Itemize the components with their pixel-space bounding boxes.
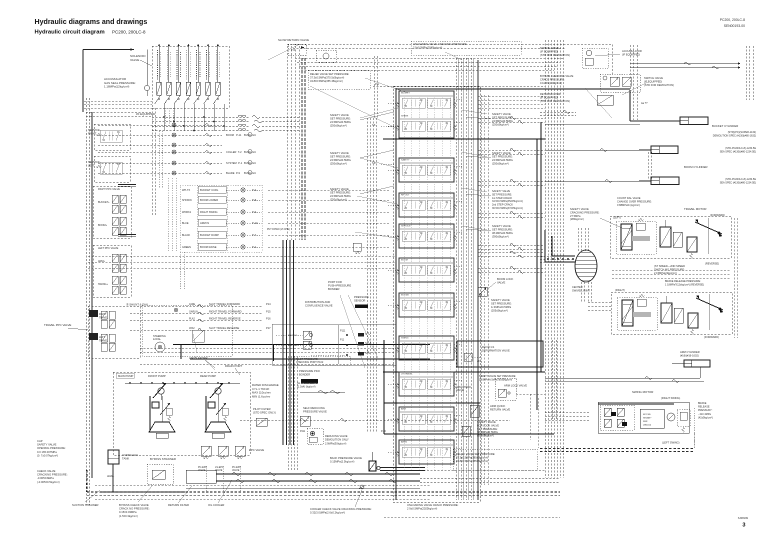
svg-text:2 15MPa(22kg/cm²): 2 15MPa(22kg/cm²): [654, 271, 677, 275]
svg-text:BUCKET+: BUCKET+: [98, 201, 110, 204]
svg-text:SERVICE: SERVICE: [401, 226, 411, 228]
svg-text:BLACK: BLACK: [182, 234, 191, 237]
back pressure valve sym: [369, 461, 376, 471]
valve section BUCKET: [400, 95, 453, 97]
svg-text:SEA SPEC (#130&#80-1234.5E): SEA SPEC (#130&#80-1234.5E): [720, 181, 756, 184]
solenoid valve 6: [207, 44, 209, 82]
svg-text:RIGHT PPC VALVE: RIGHT PPC VALVE: [98, 188, 120, 191]
return manifold lines: [140, 347, 395, 349]
svg-text:(IF EQUIPPED): (IF EQUIPPED): [540, 49, 558, 53]
svg-text:LEVEL: LEVEL: [107, 476, 115, 478]
thick manifold L: [173, 344, 430, 346]
svg-text:BOOM LOCK: BOOM LOCK: [497, 277, 513, 281]
label pointer lines: [365, 78, 408, 93]
svg-text:NL VALVE 010Pa: NL VALVE 010Pa: [297, 381, 318, 385]
svg-text:0.15±0.03MPa: 0.15±0.03MPa: [119, 510, 137, 514]
svg-text:T=1: T=1: [291, 48, 296, 52]
solenoid valve 4: [187, 44, 189, 82]
svg-text:PRESSURE VALVE: PRESSURE VALVE: [303, 410, 327, 414]
top left feed line: [83, 49, 134, 51]
left ppc valve: [93, 245, 131, 297]
svg-text:SAFETY VALVE: SAFETY VALVE: [492, 151, 511, 155]
svg-text:ARM2: ARM2: [401, 441, 408, 444]
bus crossing pigtails: [238, 115, 246, 117]
svg-text:CHECKING PORT P102: CHECKING PORT P102: [296, 361, 324, 364]
svg-text:BOOM+: BOOM+: [98, 224, 108, 227]
svg-text:SEN00193-00: SEN00193-00: [724, 24, 745, 28]
left edge vertical bus: [85, 98, 87, 505]
svg-text:SUCTION STRAINER: SUCTION STRAINER: [72, 503, 98, 507]
svg-text:(250±5kg/cm²): (250±5kg/cm²): [492, 123, 509, 127]
pilot pressure checking port: [294, 356, 350, 365]
oil cooler pipes: [186, 470, 216, 483]
svg-text:1 18MPa?(12±kg/cm²) (REVERSE): 1 18MPa?(12±kg/cm²) (REVERSE): [665, 283, 704, 286]
svg-text:SAFETY VALVE: SAFETY VALVE: [492, 224, 511, 228]
svg-text:SWITCH MG PRESSURE:: SWITCH MG PRESSURE:: [654, 267, 685, 271]
svg-text:SHOWN: SHOWN: [182, 199, 192, 202]
thick feed verticals: [536, 139, 538, 410]
reducing valve box: [307, 428, 323, 444]
travel signal rows: [130, 305, 263, 307]
boom quick return mini box: [353, 243, 361, 251]
boom cylinder lower: [651, 177, 679, 185]
bucket cylinder: [680, 117, 708, 125]
right trunk bus: [544, 40, 546, 478]
swivel out lines: [580, 282, 582, 302]
svg-text:SAFETY VALVE: SAFETY VALVE: [491, 298, 510, 302]
pilot bus under solenoid valves: [152, 116, 250, 118]
bottom horizontal bundle: [420, 477, 560, 479]
svg-text:24.5MPa±0.5MPa: 24.5MPa±0.5MPa: [330, 158, 351, 162]
svg-text:CRACKING PRESSURE:: CRACKING PRESSURE:: [570, 210, 600, 214]
svg-text:2 9±0.5MPa(2025kg/cm²): 2 9±0.5MPa(2025kg/cm²): [407, 507, 437, 511]
valve section bucket+spare box: [399, 91, 454, 138]
svg-text:(38kw/d): (38kw/d): [643, 425, 651, 427]
svg-text:PUSH-PRESSURE: PUSH-PRESSURE: [328, 284, 351, 288]
svg-text:SET PRESSURE:: SET PRESSURE:: [492, 155, 513, 159]
svg-text:(RIGHT SWING): (RIGHT SWING): [661, 396, 680, 400]
svg-text:(STD FOR DEMOLITION): (STD FOR DEMOLITION): [540, 53, 570, 57]
svg-text:RETURN VALVE: RETURN VALVE: [490, 408, 510, 412]
svg-text:SLCT TRAVEL FORWARD: SLCT TRAVEL FORWARD: [209, 302, 240, 306]
svg-text:BUCKET: BUCKET: [401, 93, 411, 95]
valve top bus to trunk: [478, 95, 545, 97]
long top right lines: [630, 63, 738, 65]
left of valve bundle: [366, 118, 368, 432]
svg-text:SET PRESSURE:: SET PRESSURE:: [492, 228, 513, 232]
svg-text:SENSOR: SENSOR: [354, 299, 365, 303]
svg-text:RIGHT: RIGHT: [88, 132, 97, 136]
valve section RH OUT: [399, 193, 454, 217]
shuttle box: [142, 305, 232, 356]
svg-text:0.0 165.007MPa: 0.0 165.007MPa: [37, 450, 57, 454]
svg-text:27 5MPa: 27 5MPa: [570, 214, 581, 218]
svg-text:WH-TX: WH-TX: [182, 189, 191, 192]
valve right bus: [455, 58, 457, 500]
main pressure line mid: [383, 138, 545, 140]
svg-text:VALVE: VALVE: [456, 389, 464, 392]
valve section BOOM2: [399, 293, 454, 317]
svg-text:(IF EQUIPPED): (IF EQUIPPED): [540, 95, 558, 99]
left travel motor: [610, 216, 731, 258]
main control valve frame: [393, 86, 480, 502]
svg-text:DEMOLITION ONLY: DEMOLITION ONLY: [325, 438, 349, 442]
svg-text:BONDER: BONDER: [299, 372, 310, 376]
svg-text:TANK: TANK: [122, 457, 129, 461]
svg-text:RETURN FILTER: RETURN FILTER: [540, 92, 560, 96]
svg-text:CRACK PRESSURE:: CRACK PRESSURE:: [540, 77, 565, 81]
svg-text:TRAVEL PPC VALVE: TRAVEL PPC VALVE: [44, 323, 71, 327]
return filter right sym: [597, 95, 613, 105]
check valve minis: [358, 333, 364, 337]
valve section ARM2: [399, 440, 454, 464]
svg-text:BLADE P-9: BLADE P-9: [226, 171, 241, 175]
svg-text:SWING+: SWING+: [98, 283, 108, 286]
front pump swash servo: [149, 422, 175, 432]
svg-text:SAFETY VALVE: SAFETY VALVE: [330, 187, 349, 191]
solenoid valve 1: [158, 44, 160, 82]
hydraulic tank: [108, 450, 119, 464]
dark bottom line: [87, 491, 560, 493]
svg-text:(42±5kg/cm²): (42±5kg/cm²): [698, 416, 713, 419]
right travel motor: [611, 292, 732, 334]
svg-text:SWITCH VALVE: SWITCH VALVE: [540, 46, 559, 50]
svg-text:(280kg/cm²): (280kg/cm²): [570, 217, 584, 221]
svg-text:ARM IN: ARM IN: [200, 221, 209, 225]
svg-text:(390±5kg/cm²): (390±5kg/cm²): [477, 434, 494, 438]
svg-text:34.8±0.5MPa(355 45kg/cm²): 34.8±0.5MPa(355 45kg/cm²): [310, 79, 343, 83]
accumulator top right: [586, 50, 592, 56]
svg-text:1/.4MPa±0.5MPa: 1/.4MPa±0.5MPa: [491, 305, 512, 309]
valve section SWING: [399, 336, 454, 360]
svg-text:3: 3: [742, 523, 745, 529]
svg-text:BOOM: BOOM: [401, 260, 408, 262]
travel motor link bus: [612, 269, 731, 271]
svg-text:- 410 4MPa: - 410 4MPa: [698, 413, 712, 416]
svg-text:1.18MPa(12kg/cm²): 1.18MPa(12kg/cm²): [104, 85, 129, 89]
svg-text:BOOM RAISE: BOOM RAISE: [200, 245, 217, 249]
svg-text:24.5MPa±0.5MPa: 24.5MPa±0.5MPa: [492, 119, 513, 123]
svg-text:(IF EQUIPPED): (IF EQUIPPED): [644, 79, 662, 83]
svg-text:VALVE: VALVE: [198, 469, 206, 472]
accumulator gas seal: [144, 85, 149, 90]
svg-text:3MR: 3MR: [643, 421, 648, 423]
boom cylinder upper: [651, 146, 678, 154]
svg-text:24.5MPa±0.5MPa: 24.5MPa±0.5MPa: [492, 158, 513, 162]
cyl feed bundle: [629, 45, 631, 120]
swing feed lines: [545, 411, 590, 413]
svg-text:SAFETY: SAFETY: [401, 159, 410, 162]
svg-text:PRESSURY:: PRESSURY:: [698, 409, 713, 412]
svg-text:RIGHT TRAVEL REVERSE: RIGHT TRAVEL REVERSE: [209, 317, 241, 321]
svg-text:LEFT: LEFT: [88, 164, 95, 168]
svg-text:LEFT PPC VALVE: LEFT PPC VALVE: [98, 247, 119, 250]
LS EPC valves: [201, 446, 211, 456]
svg-text:LH TRAVEL: LH TRAVEL: [401, 373, 413, 376]
center long pilot lines: [88, 255, 396, 257]
svg-text:SET PRESSURE:: SET PRESSURE:: [330, 117, 351, 121]
svg-text:36.5±0.5MPa(372±5kg/cm²): 36.5±0.5MPa(372±5kg/cm²): [492, 207, 523, 210]
svg-text:BOOM LOWER: BOOM LOWER: [200, 198, 218, 202]
switch valve top dashed box: [582, 48, 608, 68]
svg-text:SWING MOTOR: SWING MOTOR: [632, 390, 653, 394]
travel ppc valve box: [88, 306, 140, 358]
svg-text:CHANGE OVER PRESSURE:: CHANGE OVER PRESSURE:: [617, 199, 652, 203]
svg-text:(250±5kg/cm²): (250±5kg/cm²): [330, 198, 347, 202]
trunk corner dashes: [516, 393, 545, 395]
svg-text:AFL.: AFL.: [477, 360, 482, 363]
svg-text:0.32(3.0)MPa(2.6±0.2kg/cm²): 0.32(3.0)MPa(2.6±0.2kg/cm²): [310, 511, 345, 515]
svg-text:VALVE: VALVE: [130, 58, 139, 62]
top pilot bus: [287, 44, 612, 46]
valve section LH TRAVEL: [399, 372, 454, 396]
svg-text:P11: P11: [340, 339, 345, 342]
svg-text:0 88MPa% (kg/cm²): 0 88MPa% (kg/cm²): [617, 203, 640, 207]
svg-text:PORT FOR: PORT FOR: [328, 280, 342, 284]
svg-text:SEDAN?: SEDAN?: [643, 417, 652, 420]
svg-text:CRACKING PRESSURE:: CRACKING PRESSURE:: [37, 473, 68, 477]
svg-text:SAFETY VALVE: SAFETY VALVE: [330, 113, 349, 117]
solenoid valve 7: [217, 44, 219, 82]
svg-text:P14: P14: [266, 302, 271, 306]
svg-text:BUCKET DUMP: BUCKET DUMP: [200, 233, 219, 237]
svg-text:(FORWARD): (FORWARD): [710, 213, 725, 217]
svg-text:(1.0±4) (kg/cm²): (1.0±4) (kg/cm²): [297, 384, 316, 388]
svg-text:VALVE: VALVE: [497, 281, 505, 285]
svg-text:SERVICE: SERVICE: [88, 128, 100, 132]
svg-text:VALVE: VALVE: [232, 469, 240, 472]
suction line: [112, 464, 114, 492]
svg-text:BOOM CYLINDER: BOOM CYLINDER: [684, 165, 707, 169]
svg-text:COOLER CHECK VALVE CRACKING PR: COOLER CHECK VALVE CRACKING PRESSURE:: [310, 507, 372, 511]
svg-text:PRESSURE PICK: PRESSURE PICK: [299, 369, 320, 373]
svg-text:MAIN PUMP: MAIN PUMP: [118, 374, 133, 378]
svg-text:OPENING PRESSURE:: OPENING PRESSURE:: [37, 446, 66, 450]
svg-text:SAFETY VALVE: SAFETY VALVE: [330, 151, 349, 155]
svg-text:SAFETY VALVE: SAFETY VALVE: [477, 420, 496, 424]
right ppc valve: [93, 186, 131, 238]
svg-text:CRACK NO PRESSURE:: CRACK NO PRESSURE:: [119, 507, 150, 511]
front pump: [158, 388, 164, 394]
svg-text:ARM QUICK: ARM QUICK: [490, 404, 505, 408]
solenoid outlet drops: [163, 104, 165, 131]
svg-text:SAFETY VALVE: SAFETY VALVE: [37, 443, 57, 447]
right ppc underline: [118, 184, 136, 186]
svg-text:SAFETY VALVE: SAFETY VALVE: [570, 207, 589, 211]
svg-text:SET PRESSURE:: SET PRESSURE:: [477, 427, 498, 431]
service valve upper box: [94, 124, 130, 150]
svg-text:2.9±0.5MPa(2045kg/cm²): 2.9±0.5MPa(2045kg/cm²): [413, 45, 442, 49]
unloading valve top box: [411, 41, 521, 55]
svg-text:24.5MPa±0.5MPa: 24.5MPa±0.5MPa: [330, 194, 351, 198]
svg-text:PRESSURE: PRESSURE: [354, 295, 369, 299]
rear pump swash servo: [205, 422, 231, 432]
main pump block frame: [113, 372, 250, 455]
svg-text:SERVICE: SERVICE: [88, 160, 100, 164]
svg-text:DRAIN PORT: DRAIN PORT: [225, 364, 242, 368]
svg-text:P411: P411: [300, 431, 306, 433]
svg-text:(-0.005±0.5kg/cm²): (-0.005±0.5kg/cm²): [37, 480, 60, 484]
svg-text:PILOT FILTER: PILOT FILTER: [253, 407, 271, 411]
svg-text:MOT.ML: MOT.ML: [643, 414, 652, 416]
svg-text:SET PRESSURE:: SET PRESSURE:: [491, 302, 512, 306]
rear pump: [215, 388, 221, 394]
svg-text:RH OUT: RH OUT: [401, 195, 410, 197]
svg-text:BLUE: BLUE: [182, 222, 189, 225]
relief valve bottom box: [453, 449, 537, 470]
svg-text:COLLER T-2: COLLER T-2: [226, 150, 242, 154]
svg-text:SET PRESSURE:: SET PRESSURE:: [330, 191, 351, 195]
mid dashed line w bumps: [240, 419, 510, 421]
svg-text:Hydraulic diagrams and drawing: Hydraulic diagrams and drawings: [35, 19, 148, 26]
svg-text:(205±5kg/cm²): (205±5kg/cm²): [491, 309, 508, 313]
solenoid valve group box: [152, 46, 229, 108]
bottom most dashed: [384, 516, 560, 518]
service valve lower box: [94, 156, 130, 182]
svg-text:(1.5±0.3kg/cm²): (1.5±0.3kg/cm²): [119, 514, 138, 518]
svg-text:(RIGHT): (RIGHT): [615, 288, 625, 292]
svg-text:(LEFT SWING): (LEFT SWING): [662, 441, 680, 445]
svg-text:I/F EQUIPPED: I/F EQUIPPED: [136, 112, 155, 116]
svg-text:REAR PUMP: REAR PUMP: [200, 374, 216, 378]
svg-text:P16: P16: [266, 317, 271, 321]
svg-text:(ST SPEED—2ND SPEED: (ST SPEED—2ND SPEED: [654, 264, 685, 268]
svg-text:BYPASS CHECKING VALVE: BYPASS CHECKING VALVE: [540, 74, 574, 78]
svg-text:(#16&#16-1602): (#16&#16-1602): [680, 353, 699, 357]
center tall bundle: [286, 46, 288, 240]
svg-text:ARM+: ARM+: [98, 260, 106, 263]
svg-text:P17: P17: [266, 326, 271, 330]
svg-text:Hydraulic circuit diagram: Hydraulic circuit diagram: [35, 29, 105, 35]
solenoid valve 3: [178, 44, 180, 82]
svg-text:UNLOADING VALVE CRACK PRESSURE: UNLOADING VALVE CRACK PRESSURE:: [407, 503, 459, 507]
svg-text:P111: P111: [340, 330, 346, 333]
svg-text:SAFETY VALVE: SAFETY VALVE: [492, 112, 511, 116]
nl wavy pipe: [318, 391, 328, 394]
svg-text:SELF REDUCING: SELF REDUCING: [303, 406, 325, 410]
second trunk: [577, 228, 579, 252]
svg-text:PLA2: PLA2: [189, 318, 196, 321]
svg-text:BYPASS CHECK VALVE: BYPASS CHECK VALVE: [119, 503, 149, 507]
ls deformation block: [457, 341, 543, 367]
switch valve mid box: [600, 74, 640, 92]
svg-text:CONFLUENCE VALVE: CONFLUENCE VALVE: [305, 304, 333, 308]
svg-text:(250±5kg/cm²): (250±5kg/cm²): [330, 124, 347, 128]
svg-text:SEA SPEC (#130&#80-1234.5E): SEA SPEC (#130&#80-1234.5E): [720, 150, 756, 153]
svg-text:-0.005±49kPa: -0.005±49kPa: [37, 476, 54, 480]
cooler check valve sym: [360, 485, 364, 489]
svg-text:RELEASE: RELEASE: [698, 406, 710, 409]
svg-text:SET PRESSURE:: SET PRESSURE:: [492, 116, 513, 120]
svg-text:Aa ??: Aa ??: [641, 102, 648, 105]
svg-text:37.3±0.5MPa(370.5±5kg/cm²): 37.3±0.5MPa(370.5±5kg/cm²): [310, 75, 344, 79]
svg-text:GREEN: GREEN: [182, 246, 191, 249]
confluence valve block: [272, 324, 396, 365]
svg-text:BACK PRESSURE VALVE: BACK PRESSURE VALVE: [330, 456, 362, 460]
swivel feed lines: [547, 258, 549, 260]
left bus top link: [86, 111, 152, 113]
svg-text:RELIEF VALVE SET PRESSURE:: RELIEF VALVE SET PRESSURE:: [310, 72, 349, 76]
svg-text:BRAKE: BRAKE: [698, 402, 707, 405]
svg-text:BOOM P-11: BOOM P-11: [226, 133, 242, 137]
svg-text:(0. 7±0.07kg/cm²): (0. 7±0.07kg/cm²): [37, 453, 58, 457]
cyl connect lines: [629, 90, 631, 121]
svg-text:AIR BLEEDER: AIR BLEEDER: [189, 356, 208, 360]
valve section SAFETY: [399, 158, 454, 182]
svg-text:BOOM2: BOOM2: [401, 295, 410, 297]
center vertical bundle: [287, 356, 289, 470]
svg-text:RIGHT TRAVEL FORWARD: RIGHT TRAVEL FORWARD: [209, 310, 242, 314]
svg-text:PC200, 200LC-8: PC200, 200LC-8: [112, 29, 146, 34]
valve section SERVICE: [399, 224, 454, 248]
svg-text:SJ08199: SJ08199: [738, 516, 749, 520]
relief valve set pressure box: [308, 70, 370, 89]
svg-text:BUCKET: BUCKET: [288, 335, 298, 337]
svg-text:ARM CYLINDER: ARM CYLINDER: [680, 350, 700, 354]
svg-text:RIGHT SWING: RIGHT SWING: [200, 210, 218, 214]
svg-text:WORK1: WORK1: [182, 211, 192, 214]
solenoid valve 2: [168, 44, 170, 82]
svg-text:SWITCH VALVE: SWITCH VALVE: [644, 76, 663, 80]
solenoid valve 5: [197, 44, 199, 82]
svg-text:SLCT TRAVEL REVERSE: SLCT TRAVEL REVERSE: [209, 326, 239, 330]
valve section SPARE: [400, 118, 453, 120]
svg-text:BL-CURL: BL-CURL: [288, 345, 298, 347]
main pressure line low: [383, 371, 545, 373]
right link bus: [540, 111, 576, 113]
pilot signal table: [180, 185, 262, 252]
svg-text:UNLOADING VALVE CRACKING PRESS: UNLOADING VALVE CRACKING PRESSURE:: [413, 42, 468, 46]
svg-text:REDUCING VALVE: REDUCING VALVE: [325, 434, 348, 438]
svg-text:ACCUMULATOR: ACCUMULATOR: [622, 49, 642, 53]
svg-text:SPARE: SPARE: [401, 115, 409, 118]
svg-text:(STD FOR DEMOLITION): (STD FOR DEMOLITION): [540, 99, 570, 103]
bottom dashed bus right: [540, 448, 694, 450]
dark L lines lower valve: [384, 402, 480, 404]
svg-text:SWING: SWING: [401, 338, 409, 340]
center swivel joint: [575, 250, 597, 282]
svg-text:(STD SPEC ONLY): (STD SPEC ONLY): [253, 411, 276, 415]
svg-text:JPA2: JPA2: [189, 327, 195, 330]
svg-text:38.2MPa±0.5MPa: 38.2MPa±0.5MPa: [492, 231, 513, 235]
svg-text:TRAVEL MOTOR: TRAVEL MOTOR: [684, 207, 706, 211]
svg-text:(REVERSE): (REVERSE): [705, 262, 719, 266]
svg-text:0.15MPa(2.5kg/cm²): 0.15MPa(2.5kg/cm²): [330, 460, 354, 464]
svg-text:JADE: JADE: [189, 303, 196, 306]
svg-text:RH NO LS: RH NO LS: [482, 345, 495, 349]
svg-text:OIL COOLER: OIL COOLER: [208, 503, 224, 507]
valve section BOOM: [399, 258, 454, 282]
svg-text:CAP: CAP: [37, 439, 43, 443]
svg-text:PC200, 200LC-8: PC200, 200LC-8: [720, 18, 745, 22]
svg-text:EPC VALVE: EPC VALVE: [249, 448, 264, 452]
work port lines to trunk: [478, 117, 545, 119]
svg-text:BUCKET CURL: BUCKET CURL: [200, 188, 219, 192]
svg-text:DEMOLITION SPEC (#130&#80-1632: DEMOLITION SPEC (#130&#80-1632): [713, 134, 756, 137]
svg-text:GARLIN: GARLIN: [189, 311, 198, 314]
svg-text:(FORWARD): (FORWARD): [704, 335, 719, 339]
swing motor block: [598, 402, 689, 433]
svg-text:BYPASS STRAINER: BYPASS STRAINER: [150, 457, 176, 461]
svg-text:PUT DOWN (LT-CHG): PUT DOWN (LT-CHG): [267, 229, 290, 231]
svg-text:& DIAL: & DIAL: [153, 338, 162, 341]
boom lock valve sym: [478, 287, 487, 296]
svg-text:38.2MPa±0 5MPa: 38.2MPa±0 5MPa: [477, 430, 498, 434]
svg-text:DEFORMATION VALVE: DEFORMATION VALVE: [482, 349, 510, 353]
svg-text:CHECK VALVE: CHECK VALVE: [37, 469, 56, 473]
svg-text:37.3±0.5MPa(380±5kg/cm²): 37.3±0.5MPa(380±5kg/cm²): [456, 455, 488, 459]
svg-text:DISTRIBUTION AND: DISTRIBUTION AND: [305, 300, 330, 304]
